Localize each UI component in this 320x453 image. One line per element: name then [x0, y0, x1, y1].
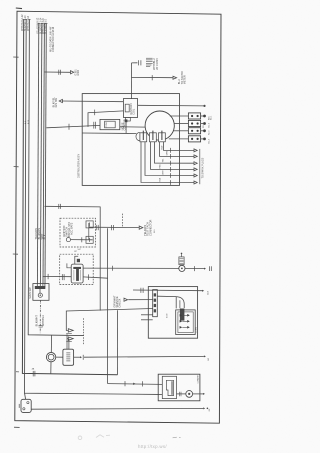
spark arrow 2: [194, 155, 197, 158]
ticks on lower harness wire: [124, 381, 126, 386]
watermark: [138, 437, 181, 449]
svg-text:CONNECTOR: CONNECTOR: [148, 219, 152, 236]
svg-text:COIL: COIL: [131, 108, 135, 115]
svg-text:YEL: YEL: [162, 159, 164, 163]
inner box: [162, 376, 176, 398]
ticks on spark wires: [170, 148, 172, 153]
plug lead connector 2: [188, 120, 200, 126]
svg-text:CONN: CONN: [196, 327, 198, 333]
ECM input wire 3: [141, 319, 153, 321]
label ignition switch: [62, 222, 74, 237]
svg-text:BLU: BLU: [154, 229, 156, 233]
footer faint marks: [78, 435, 110, 440]
label noise condenser: [120, 119, 126, 130]
switch pin 2: [86, 236, 93, 243]
plug lead stub 2: [201, 123, 204, 125]
ground plate connector: [21, 399, 31, 412]
wire from ignition switch (arrow left): [59, 99, 62, 102]
ticks: [47, 274, 49, 279]
svg-text:CONNECTOR ECM 16: CONNECTOR ECM 16: [52, 26, 55, 52]
igniter flag: [176, 297, 184, 309]
ticks on dash-dot wire: [39, 324, 43, 326]
pickup wire drop 6: [141, 142, 194, 183]
connector tick: [68, 124, 70, 130]
svg-text:COND: COND: [106, 121, 108, 127]
svg-text:RED: RED: [159, 164, 161, 169]
dash-dot wire below main switch: [39, 300, 41, 333]
bus wire B1: [37, 24, 38, 284]
main relay grommet circle: [179, 265, 185, 271]
wire from coil to tachometer junction: [130, 63, 132, 99]
wire fuel pump to main relay: [83, 267, 179, 269]
wire gauge branch down: [50, 335, 52, 352]
spark arrow 1: [194, 149, 197, 152]
wire cap to plug lead 1: [170, 115, 189, 117]
tick left of ground plate: [18, 404, 20, 408]
pickup coil connector left bracket: [136, 132, 140, 140]
pickup coil connector pin 2: [150, 133, 157, 142]
gauge arrow 2: [67, 338, 68, 340]
bus wire B4: [45, 24, 46, 284]
spark arrow 6: [194, 181, 197, 184]
pin grid inner: [178, 312, 193, 333]
terminal arrow: [204, 268, 206, 270]
wire to condenser symbol: [177, 393, 186, 395]
pickup coil connector pin 1: [140, 133, 147, 142]
connector ticks on G101 wire: [58, 70, 60, 75]
ECM connector strip: [153, 290, 158, 317]
pin grid outer: [176, 310, 196, 335]
terminal dot coil secondary: [203, 105, 205, 107]
plug lead stub 1: [201, 115, 204, 117]
wire from bus to noise condenser: [46, 125, 100, 127]
svg-text:CHECK: CHECK: [118, 298, 122, 307]
coil secondary wire: [138, 104, 205, 107]
stabilizer feed wires: [66, 334, 68, 349]
pickup wire drop 1: [164, 142, 194, 151]
frame tick left lower: [16, 371, 19, 373]
wire below gauge: [50, 362, 52, 374]
svg-text:CONDSR: CONDSR: [197, 375, 199, 384]
condenser box bottom right: [158, 374, 200, 401]
noise condenser inner element: [105, 121, 116, 128]
svg-text:GND: GND: [76, 70, 80, 76]
main relay capacitor: [179, 257, 184, 265]
plug lead connector 1: [188, 113, 200, 119]
bus wire A3: [28, 20, 83, 336]
spark plug bracket line: [199, 149, 201, 184]
label noise suppressor: [146, 58, 153, 66]
long bottom wire: [31, 407, 203, 410]
arrow to tachometer: [173, 76, 177, 79]
pin arrows: [180, 314, 183, 317]
wire gauge to stabilizer: [56, 356, 63, 358]
long wire to gauge feed: [66, 309, 152, 331]
switch contact circle: [66, 238, 70, 242]
ECM input wire 2: [141, 314, 153, 316]
svg-text:ACC BAT2: ACC BAT2: [70, 222, 74, 235]
bus wire A2: [25, 20, 163, 395]
frame tick left upper: [13, 56, 18, 58]
svg-text:TO SPARK PLUGS: TO SPARK PLUGS: [201, 157, 204, 178]
tick on lower wire: [87, 274, 89, 280]
noise condenser symbol: [186, 391, 193, 398]
coil bottom loop: [125, 117, 130, 121]
connector ticks: [95, 225, 97, 230]
wire strip to igniter: [157, 295, 176, 297]
voltage stabilizer box: [63, 349, 74, 365]
plug lead connector 4: [188, 136, 200, 142]
bus wire B3: [43, 24, 44, 284]
terminal label marks: [209, 266, 211, 271]
connector ticks on feed wire: [58, 204, 60, 209]
switch pin 1: [86, 221, 93, 228]
label ignition coil: [129, 103, 136, 114]
wire condenser to distributor: [120, 126, 146, 128]
bus labels top: [21, 14, 55, 124]
svg-text:WHT/BLU: WHT/BLU: [41, 315, 45, 327]
tick: [193, 266, 195, 271]
main switch box: [33, 284, 49, 301]
pickup coil connector pin 3: [159, 133, 166, 142]
pickup wire drop 5: [145, 142, 194, 176]
svg-text:http://txp.ws/: http://txp.ws/: [138, 444, 167, 449]
svg-text:MAIN SW: MAIN SW: [28, 287, 32, 299]
tick on switch wire: [81, 237, 83, 242]
switch wire: [71, 239, 93, 241]
svg-text:WHT/BLK 4-6: WHT/BLK 4-6: [27, 15, 30, 31]
border frame: [15, 11, 221, 423]
ignition coil box: [123, 99, 137, 118]
fuel pump elbow: [67, 263, 71, 267]
svg-text:IGN SW: IGN SW: [54, 97, 58, 107]
frame tick bottom-left: [14, 426, 20, 428]
fuel pump box (dashed): [60, 254, 93, 284]
main switch stem: [39, 289, 41, 293]
terminal arrow: [204, 355, 206, 357]
bus wire A2 drop to ground plate: [25, 393, 26, 399]
coil bottom drop wire: [125, 121, 127, 133]
wire to pickup connector: [82, 132, 136, 135]
gauge dashed bracket: [83, 318, 85, 344]
ignition switch box (dashed): [60, 218, 96, 247]
svg-text:2P CONN: 2P CONN: [155, 58, 159, 69]
wire condenser out: [193, 393, 203, 395]
terminal arrow ECM wire: [202, 290, 204, 292]
frame tick left middle: [13, 253, 18, 255]
frame tick top-left: [16, 7, 22, 10]
wire cap to plug lead 4: [169, 138, 189, 140]
distributor assembly box: [82, 94, 179, 186]
inner element: [166, 380, 173, 395]
fuel gauge circle: [46, 352, 55, 361]
wire junction down to lower harness: [108, 383, 163, 386]
spark arrow 4: [194, 168, 197, 171]
wire relay to terminal: [185, 268, 204, 270]
ECM box: [148, 287, 197, 339]
dashed service check stub: [122, 214, 124, 227]
wire ignition switch to test tach: [89, 226, 139, 228]
svg-text:BLK/WHT 5-2: BLK/WHT 5-2: [45, 18, 48, 34]
gauge connector ticks: [66, 333, 72, 335]
svg-text:5-P: 5-P: [78, 249, 82, 251]
main switch contact: [38, 293, 42, 297]
svg-text:GRN: GRN: [166, 151, 168, 156]
noise condenser box: [100, 119, 120, 129]
svg-text:PLUG: PLUG: [203, 122, 205, 128]
wire through ECM to terminal: [133, 289, 202, 292]
pickup wire drop 4: [151, 142, 194, 170]
distributor cap circle: [145, 111, 174, 140]
svg-text:BLK: BLK: [42, 234, 46, 239]
junction wire down: [107, 228, 109, 383]
ticks on relay wire: [112, 266, 114, 271]
svg-text:BLK/WHT: BLK/WHT: [35, 315, 39, 327]
wire bus to ignition switch feed: [45, 206, 101, 310]
wire to tachometer: [132, 76, 173, 78]
tick on wire 4B: [32, 371, 34, 377]
ignition coil inner element: [125, 104, 129, 112]
spark arrow 3: [194, 162, 197, 165]
connector ticks at condenser: [93, 122, 95, 129]
main switch contact band: [35, 286, 46, 289]
plug lead stub 3: [201, 130, 204, 132]
bus wire A1: [22, 20, 117, 375]
terminal arrow bottom wire: [203, 407, 205, 409]
connector ticks at suppressor: [138, 60, 140, 65]
wire to noise suppressor: [132, 62, 138, 64]
plug lead connector 3: [188, 128, 200, 134]
arrow to G101: [71, 71, 74, 74]
arrow on stabilizer wire: [80, 356, 82, 358]
connector tick on tachometer wire: [151, 75, 153, 80]
arrow to test tachometer: [139, 226, 143, 229]
vertical wire C: [117, 310, 119, 375]
capacitor stem: [181, 254, 183, 257]
wire cap to plug lead 2: [174, 123, 188, 125]
arrow on lower harness wire: [133, 383, 135, 385]
ECM input wire 1: [128, 299, 152, 301]
bus wire end caps: [23, 20, 48, 24]
fuel pump cylinder: [71, 264, 83, 283]
wire fuel pump lower: [83, 277, 108, 278]
pickup wire drop 2: [160, 142, 194, 157]
long wire stabilizer to terminal: [84, 355, 204, 358]
stabilizer element rows: [66, 352, 70, 354]
svg-text:CONDSR: CONDSR: [122, 119, 126, 130]
wire to ground G101: [45, 71, 71, 73]
tick: [82, 355, 84, 360]
gauge arrow 1: [66, 329, 68, 331]
pickup wire drop 3: [155, 142, 194, 163]
wire to ignition coil positive: [62, 100, 123, 103]
wire cap to plug lead 3: [174, 130, 189, 132]
svg-text:METER: METER: [182, 75, 186, 84]
plug lead stub 4: [201, 138, 204, 140]
spark arrow 5: [194, 174, 197, 177]
wire bus to fuel pump: [43, 275, 72, 277]
bus wire B2: [40, 24, 42, 284]
branch wire up to coil feed: [88, 111, 123, 127]
fuel pump top flag: [75, 256, 78, 264]
igniter bar: [180, 309, 185, 321]
connector tick on coil feed: [94, 110, 96, 116]
svg-text:ECM: ECM: [166, 313, 168, 318]
svg-text:BLU: BLU: [161, 145, 163, 149]
ticks on ECM wire: [140, 288, 142, 293]
terminal arrow: [203, 393, 205, 395]
input arrow: [124, 298, 128, 301]
svg-text:DISTRIBUTOR ASSY: DISTRIBUTOR ASSY: [77, 154, 80, 178]
wire stabilizer out: [74, 356, 80, 358]
